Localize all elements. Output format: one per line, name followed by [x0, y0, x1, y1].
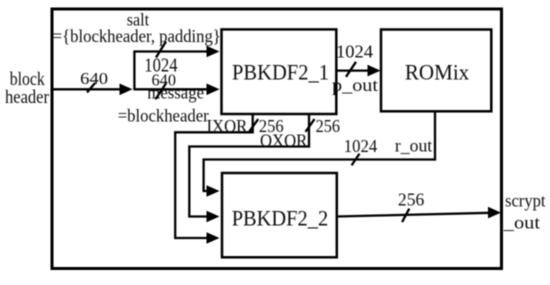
net label: p_out — [332, 75, 378, 95]
svg-text:PBKDF2_2: PBKDF2_2 — [232, 206, 329, 231]
node label: message — [118, 83, 209, 126]
node: block header input label — [5, 69, 50, 108]
svg-text:1024: 1024 — [344, 136, 377, 156]
svg-text:OXOR: OXOR — [260, 130, 307, 150]
node: branch junction — [133, 52, 135, 91]
bus width slash 256 (IXOR) — [249, 116, 284, 136]
svg-text:256: 256 — [398, 190, 424, 210]
svg-text:_out: _out — [503, 213, 540, 233]
svg-text:r_out: r_out — [395, 136, 432, 156]
block ROMix — [381, 30, 491, 112]
svg-text:ROMix: ROMix — [405, 60, 469, 85]
outer boundary frame — [52, 9, 502, 269]
wire: message bus into PBKDF2_1 (640) — [134, 84, 219, 96]
node: scrypt_out output label — [503, 191, 546, 233]
node label: salt — [53, 10, 221, 46]
bus width slash 640 (message) — [152, 70, 177, 99]
svg-text:IXOR: IXOR — [207, 116, 248, 136]
wire: scrypt output bus (256) — [337, 207, 501, 219]
svg-text:1024: 1024 — [336, 42, 373, 62]
net label: IXOR — [207, 116, 248, 136]
wire: p_out bus PBKDF2_1 to ROMix (1024) — [336, 65, 380, 77]
svg-text:640: 640 — [80, 69, 108, 88]
bus width slash 640 (input) — [80, 69, 108, 93]
bus width slash 1024 (r_out) — [344, 136, 377, 165]
block PBKDF2_1 — [222, 29, 337, 114]
net label: r_out — [395, 136, 432, 156]
svg-text:PBKDF2_1: PBKDF2_1 — [232, 60, 329, 85]
bus width slash 1024 (p_out) — [336, 42, 373, 77]
svg-text:p_out: p_out — [332, 75, 378, 95]
wire: OXOR 256 bus PBKDF2_1 to PBKDF2_2 middle input — [189, 114, 309, 222]
svg-text:scrypt: scrypt — [505, 191, 546, 211]
bus width slash 256 (output) — [398, 190, 424, 222]
svg-text:256: 256 — [316, 116, 340, 136]
wire: blockheader input bus (640) — [52, 84, 133, 96]
svg-text:message: message — [147, 83, 204, 103]
block PBKDF2_2 — [222, 173, 337, 257]
bus width slash 1024 (salt) — [144, 42, 177, 77]
bus width slash 256 (OXOR) — [306, 116, 341, 136]
wire: r_out bus ROMix to PBKDF2_2 top input (1024) — [204, 111, 435, 197]
wire: IXOR 256 bus PBKDF2_1 to PBKDF2_2 bottom input — [175, 114, 253, 244]
net label: OXOR — [260, 130, 307, 150]
svg-text:=blockheader: =blockheader — [118, 105, 209, 125]
svg-text:={blockheader, padding}: ={blockheader, padding} — [53, 26, 221, 46]
wire: salt bus into PBKDF2_1 (1024) — [133, 46, 219, 58]
svg-text:header: header — [5, 87, 50, 108]
